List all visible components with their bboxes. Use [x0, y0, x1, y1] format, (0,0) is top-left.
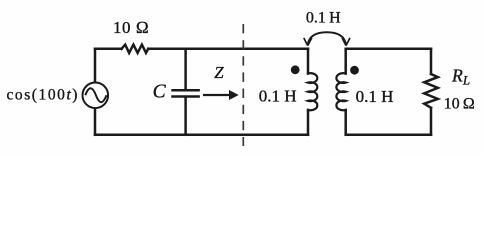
resistor RL zigzag: [424, 74, 438, 108]
inductor L2 secondary coil 0.1 H: [336, 73, 345, 110]
wire: top wire, source corner to resistor R1: [95, 48, 122, 51]
inductor L1 primary coil 0.1 H: [308, 73, 317, 110]
wire: capacitor branch top: [184, 49, 187, 89]
svg-text:0.1 H: 0.1 H: [306, 9, 341, 26]
boundary dashed line: [242, 24, 244, 146]
mutual inductance arrow arc: [308, 32, 346, 45]
svg-text:0.1 H: 0.1 H: [356, 87, 394, 106]
resistor R1 zigzag 10 ohm: [122, 45, 149, 53]
wire: primary coil top stub: [307, 49, 310, 74]
wire: right leg top segment: [430, 49, 433, 74]
impedance arrow Z: [203, 90, 239, 100]
wire: capacitor branch bottom: [184, 98, 187, 135]
svg-text:Z: Z: [214, 63, 224, 82]
wire: right mesh top wire: [346, 48, 431, 51]
svg-text:10 Ω: 10 Ω: [444, 95, 475, 112]
ac source sine wave: [85, 88, 106, 102]
capacitor C bottom plate: [173, 95, 199, 98]
wire: secondary coil bottom stub: [344, 110, 347, 135]
wire: left leg bottom segment (source to bottom wire): [94, 108, 97, 135]
wire: right leg bottom segment: [430, 108, 433, 135]
polarity dot primary: [291, 65, 300, 74]
capacitor C top plate: [173, 89, 199, 92]
wire: primary coil bottom stub: [307, 110, 310, 135]
svg-text:cos(100t): cos(100t): [7, 87, 80, 104]
wire: right mesh bottom wire: [346, 134, 431, 137]
wire: top wire, resistor to primary corner: [148, 48, 308, 51]
svg-text:10 Ω: 10 Ω: [113, 18, 149, 37]
wire: left leg top segment (source to top wire): [94, 49, 97, 83]
svg-text:0.1 H: 0.1 H: [259, 86, 297, 105]
mutual arrow right head: [342, 38, 350, 46]
wire: left mesh bottom wire: [95, 134, 308, 137]
polarity dot secondary: [350, 66, 359, 75]
svg-text:C: C: [153, 81, 167, 102]
mutual arrow left head: [304, 38, 312, 46]
ac source V1 circle: [83, 83, 109, 109]
wire: secondary coil top stub: [344, 49, 347, 74]
